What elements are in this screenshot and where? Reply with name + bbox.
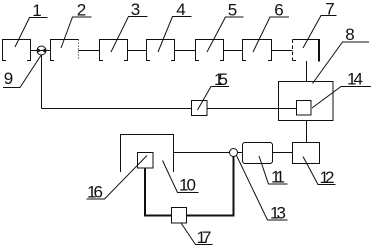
label 8 bbox=[313, 25, 370, 84]
wire box3 to box4 bbox=[128, 50, 147, 52]
wire box4 to box5 bbox=[175, 50, 196, 52]
box 17 bbox=[172, 208, 187, 224]
wire box1 to valve9 bbox=[31, 50, 38, 52]
box 8 bbox=[279, 82, 334, 121]
box 16 inner square bbox=[138, 153, 154, 169]
label 13 bbox=[237, 156, 288, 223]
box 5 bbox=[196, 40, 224, 61]
wire box10 to circle13 bbox=[174, 152, 230, 154]
label 16 bbox=[87, 156, 148, 202]
label 5 bbox=[207, 1, 244, 53]
label 11 bbox=[259, 156, 288, 187]
wire valve9 to box2 bbox=[46, 50, 51, 52]
box 10 open-bottom bbox=[121, 135, 174, 173]
label 3 bbox=[111, 0, 148, 52]
box 7 thick right edge bbox=[318, 39, 320, 62]
wire box7 down to box8 bbox=[306, 61, 308, 82]
label 2 bbox=[61, 1, 92, 49]
box 2 bbox=[51, 40, 79, 61]
box 14 inner square bbox=[297, 101, 312, 116]
wire box8 down to box12 bbox=[306, 121, 308, 143]
wire main horizontal to box8 bbox=[42, 108, 297, 110]
label 9 bbox=[3, 55, 42, 89]
svg-text:10: 10 bbox=[179, 176, 196, 195]
box 4 bbox=[147, 40, 175, 61]
label 10 bbox=[163, 161, 199, 195]
wire box2 to box3 bbox=[79, 50, 100, 52]
svg-text:8: 8 bbox=[345, 25, 354, 44]
label 6 bbox=[253, 1, 289, 53]
wire circle13 to box11 bbox=[238, 152, 243, 154]
circle 13 junction bbox=[230, 149, 238, 157]
thick duct from box16 to box17 to circle13 bbox=[145, 157, 234, 216]
valve 9 circle bbox=[37, 46, 46, 55]
wire box6 to box7 bbox=[272, 50, 293, 52]
box 7 top edge bbox=[293, 39, 320, 41]
wire valve9 down bbox=[41, 55, 43, 109]
box 7 dashed left edge bbox=[293, 40, 297, 61]
box 2 dotted right edge bbox=[78, 40, 80, 61]
box 11 bbox=[243, 143, 273, 164]
box 3 bbox=[100, 40, 128, 61]
box 6 bbox=[243, 40, 272, 61]
svg-text:14: 14 bbox=[347, 70, 363, 89]
box 1 bbox=[3, 40, 31, 61]
label 1 bbox=[15, 1, 48, 47]
wire box11 to box12 bbox=[273, 152, 293, 154]
box 12 bbox=[293, 143, 320, 164]
wire box5 to box6 bbox=[224, 50, 243, 52]
label 14 bbox=[312, 70, 371, 109]
label 17 bbox=[181, 223, 213, 247]
label 12 bbox=[303, 157, 336, 188]
label 7 bbox=[303, 0, 337, 48]
box 15 on main wire bbox=[192, 101, 208, 116]
svg-text:9: 9 bbox=[4, 69, 13, 88]
label 4 bbox=[158, 0, 192, 52]
label 15 bbox=[198, 70, 230, 110]
